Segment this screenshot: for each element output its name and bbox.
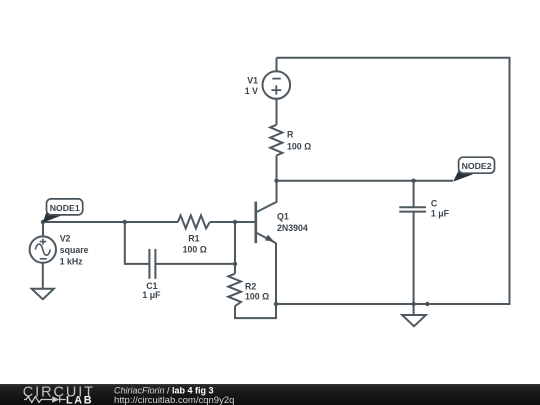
- svg-text:1 V: 1 V: [245, 86, 258, 96]
- svg-text:1 μF: 1 μF: [431, 209, 450, 219]
- svg-text:V1: V1: [247, 76, 258, 86]
- svg-text:2N3904: 2N3904: [277, 223, 308, 233]
- svg-text:NODE1: NODE1: [50, 203, 80, 213]
- svg-text:Q1: Q1: [277, 211, 289, 221]
- svg-text:1 μF: 1 μF: [142, 290, 161, 300]
- svg-text:100 Ω: 100 Ω: [245, 292, 269, 302]
- svg-text:LAB: LAB: [66, 395, 93, 405]
- svg-text:R2: R2: [245, 282, 256, 292]
- svg-text:square: square: [60, 245, 89, 255]
- svg-text:V2: V2: [60, 234, 71, 244]
- svg-text:100 Ω: 100 Ω: [287, 142, 311, 152]
- svg-text:R: R: [287, 130, 294, 140]
- svg-text:C: C: [431, 199, 438, 209]
- svg-text:1 kHz: 1 kHz: [60, 257, 84, 267]
- svg-text:http://circuitlab.com/cqn9y2q: http://circuitlab.com/cqn9y2q: [114, 395, 234, 405]
- svg-text:NODE2: NODE2: [462, 161, 492, 171]
- svg-text:R1: R1: [188, 234, 199, 244]
- svg-text:100 Ω: 100 Ω: [183, 245, 207, 255]
